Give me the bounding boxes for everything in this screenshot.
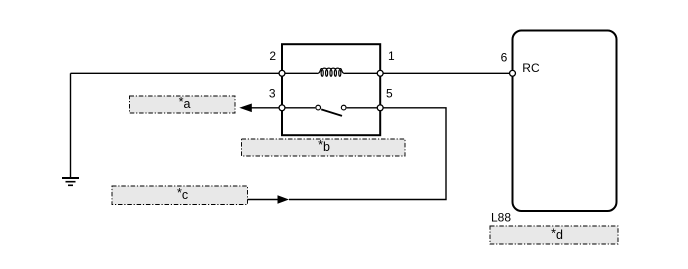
arrowhead into *a [239,104,252,113]
wire: *c box to arrowhead [248,199,278,201]
ground [62,178,79,185]
svg-text:2: 2 [269,49,276,63]
wire: relay pin 3 to switch contact [282,107,315,109]
wire: top feed from ground riser to relay coil (through pin 2) [71,72,318,74]
wire: relay pin 1 to connector pin 6 [345,72,513,74]
svg-text:*a: *a [179,95,191,111]
wire: switch contact to relay pin 5 [347,107,381,109]
svg-text:5: 5 [386,87,393,101]
label box *d [490,226,618,244]
relay switch [316,105,346,116]
terminal pin 1 [377,70,383,76]
arrowhead from *c [278,195,290,204]
svg-text:*d: *d [551,226,563,242]
terminal pin 2 [279,70,285,76]
label box *a [130,95,236,113]
terminal pin 6 on connector [510,70,516,76]
svg-text:3: 3 [269,87,276,101]
wire: relay pin 5 right, down, left to *c arrow [289,108,446,200]
relay coil L [318,68,345,76]
svg-text:L88: L88 [491,211,511,225]
svg-text:1: 1 [388,49,395,63]
wire: *a arrow to relay pin 3 [251,107,282,109]
wire: ground riser [70,73,72,177]
svg-text:RC: RC [522,61,540,75]
svg-text:*c: *c [177,186,188,202]
label box *b [242,138,406,156]
svg-text:*b: *b [318,138,330,154]
label box *c [112,186,248,205]
terminal pin 5 [377,105,383,111]
relay box [282,44,380,135]
connector L88 body [513,31,617,212]
svg-text:6: 6 [501,51,508,65]
terminal pin 3 [279,105,285,111]
